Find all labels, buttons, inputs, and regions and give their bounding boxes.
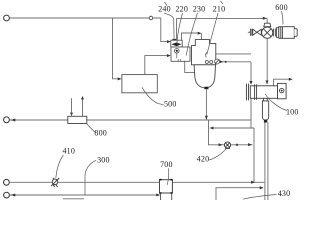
box800 stubs [72, 98, 83, 116]
arrow on y182 at junction [251, 181, 255, 184]
diamond on 420 line [236, 143, 239, 146]
arrow into vessel top inlet [198, 32, 202, 35]
tick above 240 [165, 2, 168, 6]
arrow on 420 line before valve [219, 143, 223, 146]
pump impeller cross [263, 29, 271, 37]
gauge 220 circle [175, 49, 181, 62]
arrow left on y127 [210, 127, 214, 130]
wire manifold bottom to bowl [185, 61, 195, 72]
coupling block [276, 28, 278, 38]
svg-text:230: 230 [193, 5, 206, 14]
vessel inner circle b [210, 61, 213, 64]
vessel drain tab [204, 87, 208, 90]
condensate cylinder [262, 98, 268, 120]
terminal port 2 [4, 117, 10, 123]
vessel inner circle a [205, 61, 208, 64]
stub out [82, 100, 84, 117]
wire bottom partial box edge [63, 198, 84, 200]
arrow into valve box left [167, 40, 171, 43]
terminal circles [4, 15, 153, 198]
right box circle [280, 88, 284, 92]
wire vessel outlet lower [211, 61, 251, 63]
wire bottom compressor feed y194.5 [10, 194, 159, 196]
leader 220 [177, 13, 183, 44]
ball valve on outlet [215, 59, 220, 64]
wire bottom corner y187.7 [216, 188, 263, 200]
compressor box 700 [160, 180, 173, 200]
terminal port 3 [4, 179, 10, 185]
terminal port 1 [4, 15, 10, 21]
leader 430 [243, 195, 277, 200]
wire manifold top to vessel inlet [182, 33, 202, 40]
stub in [71, 98, 73, 116]
svg-text:700: 700 [160, 160, 173, 169]
left flange bars [246, 84, 248, 101]
svg-text:100: 100 [286, 108, 299, 117]
svg-text:430: 430 [278, 189, 291, 198]
svg-text:300: 300 [97, 156, 110, 165]
arrow into manifold from 500 [167, 54, 171, 57]
arrow down box800 left stub [70, 113, 73, 116]
wire vertical into separator 100 [250, 62, 252, 84]
leader 420 [209, 149, 226, 160]
arrow on vessel outlet lower [220, 61, 223, 64]
wire top right segment to pump 600 [177, 18, 268, 40]
svg-text:500: 500 [164, 99, 177, 108]
svg-text:600: 600 [275, 3, 288, 12]
svg-text:220: 220 [175, 5, 188, 14]
inline orifice circle on top line [149, 16, 153, 20]
svg-text:210: 210 [213, 5, 226, 14]
leader 210 [207, 13, 218, 55]
svg-text:240: 240 [158, 5, 171, 14]
vessel bowl 210 [194, 65, 215, 88]
leader 700 [167, 168, 168, 185]
right box [278, 83, 287, 98]
pump 600 assembly [248, 23, 297, 38]
manifold body 220 [171, 47, 190, 61]
coupling bars [273, 29, 275, 37]
leader 300 [85, 160, 96, 195]
motor end cap [294, 29, 297, 37]
arrow down into 100 left [250, 81, 253, 85]
arrow 100 outlet [289, 78, 293, 81]
vessel 230 dryer outline [192, 40, 216, 65]
wire riser to valve 420 [209, 99, 255, 183]
pump circle [262, 27, 273, 38]
pump left bowtie [253, 29, 262, 35]
cylinder tab [264, 120, 267, 123]
wire top main left [10, 17, 161, 19]
pump left flange bars [250, 29, 252, 36]
diamond on vessel outlet lower [224, 61, 227, 63]
valve 420 [224, 142, 230, 149]
vessel inner arc [206, 52, 207, 57]
leader 800 [87, 124, 96, 133]
leader lines [56, 1, 287, 199]
arrowheads [11, 17, 293, 197]
pump inlet funnel [264, 23, 271, 27]
arrow down into 100 right (pump line) [266, 81, 269, 85]
wire port line y120 [10, 120, 254, 128]
svg-text:800: 800 [94, 129, 107, 138]
leader 230 [186, 13, 197, 56]
tick above 210 [221, 1, 224, 4]
leader 410 [56, 155, 64, 178]
valve box 240 (solenoid) [171, 39, 182, 47]
motor body [279, 27, 295, 39]
wire pump 600 down to 100 [266, 38, 268, 84]
arrow up box800 right stub [81, 96, 84, 99]
motor stripes [281, 27, 283, 39]
arrow into pump 600 [263, 17, 267, 20]
valve 410 [51, 178, 59, 187]
arrow on y187.7 into drain pipe [260, 186, 264, 189]
terminal port 4 [4, 192, 10, 198]
arrow down vessel drain to line [205, 116, 208, 120]
wire 100 outlet arrow line [274, 79, 291, 85]
leader 100 [265, 94, 287, 111]
leader 500 [142, 87, 164, 104]
wire box500 to manifold [145, 56, 169, 75]
inner flange bars [255, 84, 257, 99]
svg-text:420: 420 [197, 154, 210, 163]
compressor lower body [161, 193, 172, 200]
box 500 [122, 75, 157, 93]
body [250, 86, 277, 99]
arrow on 420 line after valve [248, 143, 252, 146]
arrow into box 500 [118, 77, 122, 80]
box 800 [68, 116, 87, 123]
wire double drain line [265, 122, 268, 200]
separator 100 assembly [246, 83, 286, 122]
svg-text:410: 410 [62, 147, 75, 156]
leader 240 [164, 13, 174, 40]
wire drop to box 500 [113, 18, 121, 79]
wire vessel outlet upper [216, 53, 251, 55]
arrow left at terminal y194 [11, 194, 16, 197]
arrow left at terminal y119 [11, 119, 16, 122]
wire bottom line y182 [10, 181, 264, 183]
arrow into compressor lower box [156, 194, 160, 197]
wire top branch down to valve box [161, 18, 168, 42]
wire vessel drain [205, 90, 207, 120]
pump left stub [248, 31, 250, 33]
leader 600 [282, 11, 284, 25]
